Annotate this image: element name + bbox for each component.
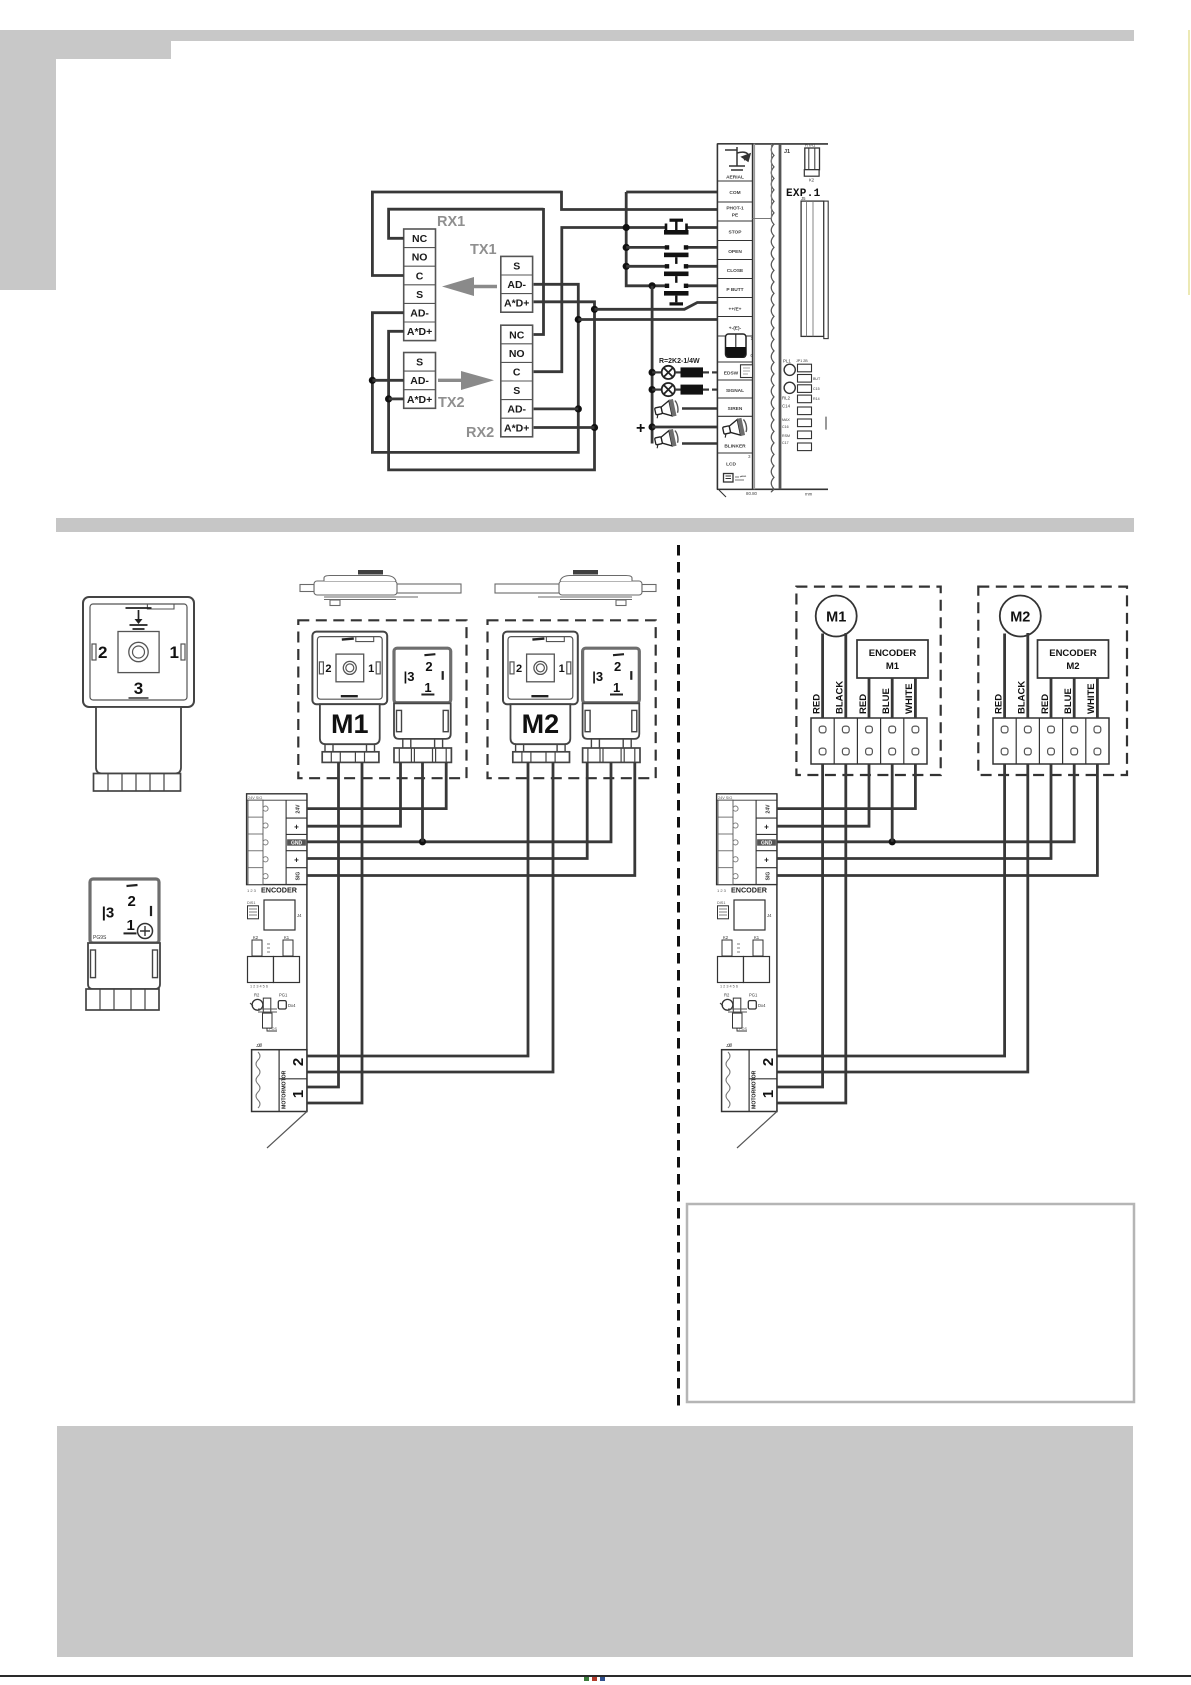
junction COM-lamp branch bbox=[649, 282, 656, 289]
wire M2 RED bbox=[1003, 634, 1006, 719]
svg-text:NC: NC bbox=[509, 329, 525, 341]
junction AD- bus / E- feed bbox=[575, 316, 582, 323]
svg-text:BLINKER: BLINKER bbox=[724, 444, 746, 450]
svg-text:R2: R2 bbox=[254, 992, 260, 997]
right board IC component bbox=[717, 900, 772, 930]
resistor EDSW bbox=[675, 367, 718, 377]
svg-text:TX2: TX2 bbox=[438, 395, 465, 411]
top-left gray tab bbox=[0, 30, 171, 59]
svg-text:AD-: AD- bbox=[507, 404, 526, 416]
empty note box bottom right bbox=[687, 1204, 1134, 1402]
svg-text:COM: COM bbox=[729, 190, 740, 196]
wire CLOSE button to board bbox=[687, 265, 718, 268]
lamp symbol EDSW bbox=[652, 366, 675, 379]
right board relay K2 bbox=[718, 935, 744, 983]
left gray column bbox=[0, 30, 56, 290]
svg-text:RED: RED bbox=[812, 694, 823, 714]
wire encoder2 plus2 to M2 RED enc bbox=[777, 764, 1051, 859]
svg-text:J1: J1 bbox=[784, 149, 790, 155]
svg-text:AERIAL: AERIAL bbox=[726, 174, 744, 180]
wire M2 RED to motor2a bbox=[777, 764, 1005, 1056]
expansion connector socket bbox=[801, 196, 828, 339]
svg-text:24V SIG: 24V SIG bbox=[248, 796, 262, 800]
wire TX2 A*D+ stub bbox=[389, 397, 404, 400]
siren horn BLINKER bbox=[654, 428, 718, 450]
svg-text:PG1: PG1 bbox=[279, 992, 288, 997]
wire encoder M1 pins bbox=[868, 678, 871, 718]
svg-text:RX1: RX1 bbox=[437, 214, 465, 230]
M1 encoder connector body bbox=[394, 703, 451, 739]
LCD icon bbox=[724, 454, 752, 482]
wire M1 RED to motor1-1a bbox=[777, 764, 823, 1087]
svg-text:RX2: RX2 bbox=[466, 425, 494, 441]
svg-text:PL1: PL1 bbox=[783, 359, 791, 364]
svg-text:AD-: AD- bbox=[410, 375, 429, 387]
svg-text:1: 1 bbox=[559, 663, 565, 675]
board blinker icon bbox=[721, 417, 748, 439]
svg-text:2: 2 bbox=[290, 1058, 307, 1066]
svg-text:1: 1 bbox=[127, 917, 135, 934]
photocell transmitter block TX2 bbox=[404, 353, 436, 409]
junction GND M1 enc pin2 bbox=[419, 838, 426, 845]
bottom page rule bbox=[0, 1675, 1191, 1677]
wire CLOSE row bbox=[626, 265, 666, 268]
svg-text:GND: GND bbox=[291, 841, 303, 847]
junction AD- bus / TX2 AD- bbox=[369, 377, 376, 384]
svg-text:1: 1 bbox=[368, 663, 374, 675]
push button NO CLOSE bbox=[664, 264, 689, 283]
dashed box M1 motor-encoder bbox=[796, 587, 940, 775]
svg-text:BLACK: BLACK bbox=[835, 681, 846, 714]
svg-text:PG1: PG1 bbox=[749, 992, 758, 997]
bottom gray rectangle bbox=[57, 1426, 1133, 1657]
svg-text:1: 1 bbox=[170, 643, 179, 662]
svg-text:M1: M1 bbox=[826, 610, 846, 626]
M2 connector legs and cap bbox=[513, 744, 570, 762]
svg-text:RED: RED bbox=[994, 694, 1005, 714]
left board IC component bbox=[247, 900, 302, 930]
left board motor terminal block bbox=[252, 1043, 307, 1112]
encoder connector detail body bbox=[88, 943, 160, 989]
svg-text:R14: R14 bbox=[813, 397, 820, 401]
wire P BUTT button to board bbox=[687, 284, 718, 287]
M2 encoder connector front bbox=[583, 648, 640, 703]
svg-text:J4: J4 bbox=[767, 913, 772, 918]
svg-text:+: + bbox=[294, 823, 299, 832]
right board trimmer R2 bbox=[720, 992, 741, 1013]
M2 DIN connector front bbox=[503, 632, 578, 705]
left board board corner diagonal bbox=[267, 1112, 307, 1149]
svg-text:WHITE: WHITE bbox=[1086, 683, 1097, 714]
photocell transmitter block TX1 bbox=[501, 256, 533, 312]
svg-text:2: 2 bbox=[425, 659, 432, 674]
svg-text:80.80: 80.80 bbox=[746, 491, 758, 496]
M2 encoder connector legs and cap bbox=[583, 739, 640, 763]
svg-text:K2: K2 bbox=[723, 935, 729, 940]
wire OPEN button to board bbox=[687, 246, 718, 249]
svg-text:M2: M2 bbox=[1010, 610, 1030, 626]
svg-text:24V: 24V bbox=[296, 804, 302, 814]
middle gray separator band bbox=[56, 518, 1134, 532]
svg-text:R2: R2 bbox=[724, 992, 730, 997]
svg-text:1: 1 bbox=[290, 1090, 307, 1098]
dashed box M2 connectors bbox=[488, 620, 656, 778]
motor M1 circle bbox=[816, 596, 857, 637]
wire RX2 C to STOP bbox=[534, 228, 666, 372]
junction A*D+ bus / E+ feed bbox=[591, 306, 598, 313]
wire COM vertical bus bbox=[626, 192, 666, 286]
dashed box M1 connectors bbox=[298, 620, 466, 778]
svg-text:C14: C14 bbox=[782, 404, 791, 409]
svg-text:CLOSE: CLOSE bbox=[727, 268, 744, 274]
svg-text:2: 2 bbox=[325, 663, 331, 675]
svg-text:24V: 24V bbox=[766, 804, 772, 814]
push button NO P BUTT bbox=[664, 284, 689, 306]
svg-text:C15: C15 bbox=[813, 387, 820, 391]
svg-text:+: + bbox=[636, 420, 645, 437]
wire siren plus to board bbox=[652, 426, 717, 429]
svg-text:+-(E)-: +-(E)- bbox=[729, 325, 742, 331]
svg-text:1 2 3: 1 2 3 bbox=[717, 888, 727, 893]
svg-text:ENCODER: ENCODER bbox=[869, 648, 917, 659]
right yellow edge line bbox=[1188, 30, 1190, 295]
gray arrow TX1 to RX1 (left) bbox=[442, 277, 497, 296]
right board encoder terminal block bbox=[717, 794, 777, 885]
junction AD- bus / RX2 AD- bbox=[575, 405, 582, 412]
wire motor1 terminal1a to M1 DIN pin2 bbox=[307, 762, 339, 1087]
svg-text:BLUE: BLUE bbox=[881, 688, 892, 714]
svg-text:1 2 3 4 5 6: 1 2 3 4 5 6 bbox=[720, 985, 738, 989]
terminal strip M1 bbox=[811, 718, 927, 764]
svg-text:S: S bbox=[513, 261, 520, 273]
wire encoder2 plus to M1 RED enc bbox=[777, 764, 869, 826]
svg-text:RED: RED bbox=[858, 694, 869, 714]
board button PL1 bbox=[783, 359, 795, 376]
junction COM-CLOSE bbox=[623, 263, 630, 270]
M1 DIN connector front bbox=[312, 632, 387, 705]
svg-text:PE: PE bbox=[732, 213, 739, 219]
svg-text:C17: C17 bbox=[782, 441, 789, 445]
board inner partition bbox=[753, 144, 772, 219]
svg-text:POS: POS bbox=[739, 1027, 747, 1031]
svg-text:BUT: BUT bbox=[813, 377, 821, 381]
svg-text:SIG: SIG bbox=[766, 872, 772, 881]
svg-text:DIS1: DIS1 bbox=[717, 901, 725, 905]
junction lamp EDSW bbox=[649, 369, 656, 376]
siren horn SIREN bbox=[654, 398, 718, 420]
wire outer box to RX1 C bbox=[372, 192, 561, 276]
svg-text:+: + bbox=[764, 855, 769, 864]
left board relay K2 bbox=[248, 935, 274, 983]
svg-text:OPEN: OPEN bbox=[728, 249, 742, 255]
board jumper bank bbox=[782, 359, 826, 451]
svg-text:J2: J2 bbox=[256, 1043, 261, 1048]
svg-text:M2: M2 bbox=[522, 709, 560, 739]
svg-text:|3: |3 bbox=[404, 669, 415, 684]
photocell receiver block RX2 bbox=[501, 325, 533, 437]
svg-text:K1: K1 bbox=[754, 935, 760, 940]
wire encoder M1 pin5 bbox=[914, 678, 917, 718]
board terminal labels bbox=[724, 174, 746, 467]
motor M2 circle bbox=[1000, 596, 1041, 637]
wire A*D+ bus bbox=[389, 302, 595, 470]
right board motor terminal block bbox=[722, 1043, 777, 1112]
wire M1 BLACK bbox=[844, 633, 847, 718]
junction COM-OPEN bbox=[623, 244, 630, 251]
svg-text:2: 2 bbox=[516, 663, 522, 675]
svg-text:A*D+: A*D+ bbox=[407, 394, 432, 406]
dashed box M2 motor-encoder bbox=[978, 587, 1127, 775]
photocell receiver block RX1 bbox=[404, 229, 436, 341]
DIN connector detail front view bbox=[83, 597, 194, 707]
svg-text:J4: J4 bbox=[297, 913, 302, 918]
svg-text:SIGNAL: SIGNAL bbox=[726, 388, 744, 394]
svg-text:MAX: MAX bbox=[782, 418, 790, 422]
junction lamp SIGNAL bbox=[649, 386, 656, 393]
svg-text:BLUE: BLUE bbox=[1063, 688, 1074, 714]
junction COM-STOP bbox=[623, 224, 630, 231]
svg-text:M1: M1 bbox=[886, 661, 900, 672]
wire M1 BLACK to motor1-1b bbox=[777, 764, 846, 1103]
svg-text:+: + bbox=[764, 823, 769, 832]
svg-text:C: C bbox=[513, 367, 521, 379]
hydraulic actuator right bbox=[495, 570, 656, 606]
wire motor1 terminal2a to M2 DIN pin2 bbox=[307, 762, 528, 1056]
wire encoder1 plus to M1 enc pin1 bbox=[307, 762, 401, 826]
resistor SIGNAL bbox=[675, 385, 718, 395]
wire encoder1 plus2 to M2 enc pin1 bbox=[307, 762, 587, 858]
box ENCODER M2 bbox=[1038, 640, 1109, 678]
lamp symbol SIGNAL bbox=[652, 383, 675, 396]
svg-text:PG9S: PG9S bbox=[93, 935, 107, 941]
wire RX2 NC drop bbox=[534, 208, 544, 335]
wire encoder M2 pin5 bbox=[1096, 678, 1099, 718]
right board board corner diagonal bbox=[737, 1112, 777, 1149]
encoder connector detail cap bbox=[86, 989, 159, 1010]
wire M1 BLUE drop bbox=[891, 764, 894, 842]
wire TX2 AD- stub bbox=[372, 379, 403, 382]
rocker switch icon bbox=[726, 334, 754, 358]
svg-text:C: C bbox=[416, 270, 424, 282]
svg-text:MOTORMOTOR: MOTORMOTOR bbox=[752, 1070, 758, 1109]
wire RX2 A*D+ stub bbox=[534, 426, 595, 429]
left board small capacitor bbox=[258, 1009, 277, 1031]
svg-text:+: + bbox=[294, 855, 299, 864]
wire AD- bus bbox=[372, 284, 578, 452]
svg-text:RSM: RSM bbox=[782, 434, 790, 438]
svg-text:RL2: RL2 bbox=[782, 396, 791, 401]
left board relay K1 bbox=[250, 935, 300, 989]
svg-text:POS: POS bbox=[269, 1027, 277, 1031]
svg-text:C16: C16 bbox=[782, 425, 789, 429]
control board outline bbox=[718, 144, 829, 489]
junction GND M1 BLUE bbox=[889, 838, 896, 845]
M2 connector body bbox=[511, 704, 571, 744]
svg-text:STOP: STOP bbox=[729, 230, 743, 236]
svg-text:ENCODER: ENCODER bbox=[731, 886, 768, 895]
wire motor1 terminal2b to M2 DIN pin1 bbox=[307, 762, 553, 1072]
svg-text:A*D+: A*D+ bbox=[504, 422, 529, 434]
svg-text:1 2 3: 1 2 3 bbox=[247, 888, 257, 893]
gray arrow TX2 to RX2 (right) bbox=[438, 371, 494, 390]
board bottom corner marks bbox=[719, 490, 813, 497]
wire E+ to board with step bbox=[595, 303, 718, 310]
svg-text:RED: RED bbox=[1040, 694, 1051, 714]
left board encoder terminal block bbox=[247, 794, 307, 885]
EDSW sub box bbox=[741, 365, 753, 378]
svg-text:ENCODER: ENCODER bbox=[261, 886, 298, 895]
svg-text:K2: K2 bbox=[253, 935, 259, 940]
wire M2 BLACK to motor2b bbox=[777, 764, 1028, 1072]
svg-text:S: S bbox=[513, 385, 520, 397]
M1 connector body bbox=[320, 704, 380, 744]
svg-text:2: 2 bbox=[614, 659, 621, 674]
wire RX2 AD- stub bbox=[534, 407, 579, 410]
svg-text:M2: M2 bbox=[1066, 661, 1079, 672]
wire lamp branch vertical bbox=[651, 286, 654, 444]
svg-text:K1: K1 bbox=[284, 935, 290, 940]
left board board right edge bbox=[306, 794, 308, 1111]
wire encoder2 24V to M1 WHITE bbox=[777, 764, 916, 809]
svg-text:MOTORMOTOR: MOTORMOTOR bbox=[282, 1070, 288, 1109]
wire encoder M1 pin4 bbox=[891, 678, 894, 718]
svg-text:LCD: LCD bbox=[726, 462, 736, 468]
svg-text:++/E+: ++/E+ bbox=[729, 306, 742, 312]
push button NC STOP bbox=[664, 219, 689, 235]
svg-text:24V SIG: 24V SIG bbox=[718, 796, 732, 800]
svg-text:S: S bbox=[416, 289, 423, 301]
junction A*D+ bus / RX2 A*D+ bbox=[591, 424, 598, 431]
wire encoder1 GND bus bbox=[307, 762, 611, 841]
svg-text:mm: mm bbox=[805, 492, 813, 497]
svg-text:1: 1 bbox=[424, 680, 431, 695]
svg-text:R=2K2-1/4W: R=2K2-1/4W bbox=[659, 358, 700, 365]
M1 encoder connector front bbox=[394, 648, 451, 703]
svg-text:AD-: AD- bbox=[507, 279, 526, 291]
hydraulic actuator left bbox=[300, 570, 461, 606]
wire STOP button to board bbox=[687, 226, 718, 229]
svg-text:|3: |3 bbox=[102, 904, 115, 921]
wire PHOT-1 feed bbox=[562, 191, 718, 210]
wire E- to board bbox=[578, 318, 717, 321]
fuse F1 bbox=[804, 143, 819, 183]
wire encoder1 24V to M1 enc pin3 bbox=[307, 762, 446, 808]
svg-text:NC: NC bbox=[412, 233, 428, 245]
svg-text:S: S bbox=[416, 357, 423, 369]
svg-text:EDSW: EDSW bbox=[724, 371, 739, 377]
M2 encoder connector body bbox=[583, 703, 640, 739]
svg-text:AD-: AD- bbox=[410, 308, 429, 320]
bottom tiny colored marks bbox=[584, 1677, 589, 1681]
svg-text:SIG: SIG bbox=[296, 872, 302, 881]
svg-text:NO: NO bbox=[412, 252, 428, 264]
wire encoder2 GND bus bbox=[777, 764, 1075, 842]
svg-text:2: 2 bbox=[128, 893, 136, 910]
board zigzag edge bbox=[771, 144, 780, 492]
svg-text:J5: J5 bbox=[801, 196, 806, 201]
svg-text:Dx4: Dx4 bbox=[288, 1003, 296, 1008]
terminal strip M2 bbox=[993, 718, 1109, 764]
wire M2 BLACK bbox=[1026, 633, 1029, 718]
svg-text:ENCODER: ENCODER bbox=[1049, 648, 1097, 659]
svg-text:A*D+: A*D+ bbox=[407, 326, 432, 338]
board button PL2 bbox=[782, 382, 795, 408]
svg-text:DIS1: DIS1 bbox=[247, 901, 255, 905]
svg-text:NO: NO bbox=[509, 348, 525, 360]
DIN connector detail cap bbox=[94, 774, 181, 792]
wire M1 enc pin2 drop bbox=[421, 762, 424, 841]
svg-text:1 2 3 4 5 6: 1 2 3 4 5 6 bbox=[250, 985, 268, 989]
M1 connector legs and cap bbox=[322, 744, 379, 762]
svg-text:GND: GND bbox=[761, 841, 773, 847]
left board trimmer R2 bbox=[250, 992, 271, 1013]
top gray band bbox=[0, 30, 1134, 41]
junction sirens plus node bbox=[649, 423, 656, 430]
svg-text:M1: M1 bbox=[331, 709, 369, 739]
svg-text:BLACK: BLACK bbox=[1017, 681, 1028, 714]
svg-text:TX1: TX1 bbox=[470, 242, 497, 258]
wire OPEN row bbox=[626, 246, 666, 249]
M1 encoder connector legs and cap bbox=[394, 739, 451, 763]
wire M1 RED bbox=[821, 634, 824, 719]
board terminal column bbox=[718, 144, 755, 489]
wire encoder M2 pins bbox=[1050, 678, 1053, 718]
wire encoder2 SIG to M2 WHITE bbox=[777, 764, 1098, 876]
svg-text:J2: J2 bbox=[726, 1043, 731, 1048]
wire COM horizontal bbox=[626, 191, 717, 194]
svg-text:SIREN: SIREN bbox=[728, 406, 743, 412]
box ENCODER M1 bbox=[857, 640, 928, 678]
svg-text:3: 3 bbox=[134, 679, 143, 698]
svg-text:WHITE: WHITE bbox=[904, 683, 915, 714]
antenna icon in AERIAL cell bbox=[725, 147, 750, 170]
push button NO OPEN bbox=[664, 245, 689, 264]
wire inner box to RX1 NC bbox=[389, 209, 544, 238]
right board relay K1 bbox=[720, 935, 770, 989]
svg-text:A*D+: A*D+ bbox=[504, 298, 529, 310]
svg-text:P BUTT: P BUTT bbox=[726, 287, 743, 293]
svg-text:2: 2 bbox=[760, 1058, 777, 1066]
svg-text:|3: |3 bbox=[592, 669, 603, 684]
DIN connector detail body bbox=[96, 707, 181, 774]
svg-text:PHOT-1: PHOT-1 bbox=[726, 206, 744, 212]
svg-text:Dx4: Dx4 bbox=[758, 1003, 766, 1008]
svg-text:1: 1 bbox=[613, 680, 620, 695]
svg-text:K2: K2 bbox=[809, 178, 815, 183]
right board small capacitor bbox=[728, 1009, 747, 1031]
svg-text:JP1 2B: JP1 2B bbox=[796, 359, 808, 363]
wire motor1 terminal1b to M1 DIN pin1 bbox=[307, 762, 362, 1103]
svg-text:1: 1 bbox=[760, 1090, 777, 1098]
wire encoder M2 pin4 bbox=[1073, 678, 1076, 718]
right board button PG1 bbox=[748, 992, 766, 1009]
encoder connector detail front view bbox=[90, 879, 159, 943]
svg-text:RTA1: RTA1 bbox=[805, 143, 816, 148]
left board button PG1 bbox=[278, 992, 296, 1009]
wire encoder1 SIG to M2 enc pin3 bbox=[307, 762, 635, 875]
junction A*D+ bus / TX2 A*D+ bbox=[385, 395, 392, 402]
right board board right edge bbox=[776, 794, 778, 1111]
vertical dashed separator bbox=[677, 545, 680, 1412]
svg-text:2: 2 bbox=[98, 643, 107, 662]
